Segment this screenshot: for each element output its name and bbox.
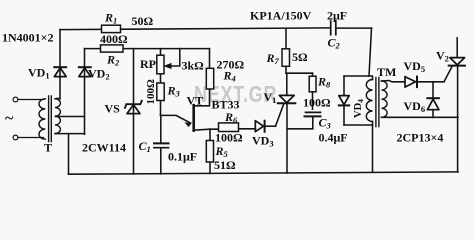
wire RP column [160, 49, 162, 116]
svg-text:R2: R2 [106, 53, 120, 68]
svg-text:R6: R6 [224, 110, 238, 125]
transformer T secondary coil [55, 99, 60, 134]
svg-text:T: T [44, 141, 52, 155]
wire TM secondary top link [382, 81, 405, 82]
resistor R3 [157, 83, 164, 101]
svg-text:2CW114: 2CW114 [82, 141, 126, 155]
wire secondary tap [55, 116, 84, 118]
wire V2 anode [456, 38, 458, 58]
diode VD1 [54, 67, 66, 76]
svg-text:VD4: VD4 [353, 99, 365, 118]
diode VD6 [427, 98, 439, 110]
svg-text:5Ω: 5Ω [292, 50, 308, 64]
svg-text:R7: R7 [266, 51, 280, 66]
watermark [194, 81, 366, 108]
svg-text:VD2: VD2 [88, 67, 110, 82]
transformer TM secondary coil [382, 81, 388, 117]
resistor R6 [219, 123, 239, 132]
svg-text:0.4μF: 0.4μF [319, 130, 348, 144]
wire VD4 loop top [344, 76, 373, 80]
capacitor C3 [305, 112, 321, 116]
wire V2 cathode [457, 66, 459, 172]
resistor R1 [102, 25, 121, 32]
wire ac bottom [18, 137, 44, 139]
potentiometer RP arrow [165, 64, 172, 69]
svg-text:KP1A/150V: KP1A/150V [250, 9, 312, 23]
svg-text:C1: C1 [139, 139, 151, 154]
wire rail to C2 gap / C2 to TM [336, 27, 372, 29]
svg-text:2μF: 2μF [327, 9, 347, 23]
resistor R4 [206, 68, 213, 89]
svg-text:VT: VT [187, 94, 204, 108]
wire RP wiper [169, 49, 180, 66]
transformer T core [49, 96, 52, 142]
transformer TM core [376, 78, 379, 127]
svg-text:R8: R8 [317, 75, 331, 90]
svg-text:C3: C3 [319, 115, 332, 130]
svg-text:~: ~ [5, 110, 14, 127]
wire ac top [18, 99, 44, 101]
wire TM primary top drop [369, 28, 372, 76]
wire R7 to R8 [286, 72, 313, 74]
svg-text:V1: V1 [264, 90, 277, 105]
svg-text:0.1μF: 0.1μF [168, 150, 197, 164]
svg-text:VS: VS [105, 102, 121, 116]
transistor VT emitter arrowhead [185, 123, 191, 127]
capacitor C2 [331, 21, 336, 35]
diode VD4 [339, 96, 349, 106]
wire VD6 column [432, 82, 434, 118]
wire VD1 column [59, 30, 61, 99]
wire rail drop left [68, 134, 70, 175]
transformer TM primary coil [366, 80, 372, 122]
wire C3 to V1 cathode [287, 117, 313, 129]
resistor R7 [282, 49, 290, 67]
svg-text:C2: C2 [328, 36, 341, 51]
transistor VT (UJT BT33) bar [192, 105, 195, 130]
svg-text:400Ω: 400Ω [100, 32, 128, 46]
svg-text:100Ω: 100Ω [145, 79, 157, 105]
wire VD2 column [84, 49, 86, 135]
zener VS [125, 101, 142, 114]
svg-text:1N4001×2: 1N4001×2 [2, 31, 54, 45]
resistor RP [157, 55, 164, 74]
svg-text:2CP13×4: 2CP13×4 [397, 131, 444, 145]
ac terminal top [13, 97, 18, 102]
svg-text:VD3: VD3 [252, 134, 274, 149]
wire V1 anode [286, 73, 288, 95]
transformer T primary coil [39, 99, 45, 139]
svg-text:R5: R5 [215, 144, 229, 159]
svg-text:3kΩ: 3kΩ [182, 59, 205, 73]
wire output bottom line [382, 116, 459, 118]
diode VD3 [255, 121, 264, 132]
wire top rail [60, 28, 330, 30]
wire R5 column [209, 129, 211, 173]
wire V2 gate diagonal [444, 66, 452, 82]
resistor R2 [101, 45, 124, 52]
svg-text:51Ω: 51Ω [214, 158, 236, 172]
svg-text:V2: V2 [436, 49, 449, 64]
diode VD2 [79, 67, 91, 76]
wire C1 column [160, 115, 162, 173]
svg-text:RP: RP [140, 57, 156, 71]
wire secondary top link [55, 97, 60, 100]
svg-text:TM: TM [377, 65, 396, 79]
resistor R5 [206, 141, 213, 163]
wire UJT B1 [194, 129, 256, 130]
ac terminal bottom [13, 135, 18, 140]
wire TM primary bottom to rail [372, 125, 374, 172]
svg-text:100Ω: 100Ω [215, 131, 243, 145]
wire V1 gate diagonal [276, 104, 284, 126]
resistor R8 [309, 76, 316, 92]
thyristor V2 [449, 58, 465, 66]
svg-text:VD5: VD5 [404, 59, 426, 74]
capacitor C1 [154, 143, 169, 147]
wire secondary bottom jog [55, 133, 85, 135]
wire R4 column [194, 49, 210, 106]
svg-text:R3: R3 [167, 84, 181, 99]
svg-text:50Ω: 50Ω [132, 14, 154, 28]
wire VD5 out to gate junction [417, 81, 444, 83]
wire R2 rail [85, 48, 210, 50]
wire UJT emitter [161, 115, 191, 123]
wire VD4 loop bottom [344, 122, 373, 126]
diode VD5 [405, 77, 417, 88]
thyristor V1 [278, 95, 296, 103]
wire VD3 out [266, 125, 276, 127]
wire V1 cathode [286, 103, 288, 173]
svg-text:VD1: VD1 [28, 66, 50, 81]
wire R7 column [285, 28, 287, 73]
wire R8 column [312, 73, 314, 109]
wire VD4 loop left [343, 76, 345, 125]
svg-text:100Ω: 100Ω [303, 96, 331, 110]
svg-text:R1: R1 [104, 11, 117, 26]
svg-text:VD6: VD6 [404, 99, 426, 114]
wire bottom rail [69, 172, 459, 174]
wire VS column [133, 49, 135, 174]
